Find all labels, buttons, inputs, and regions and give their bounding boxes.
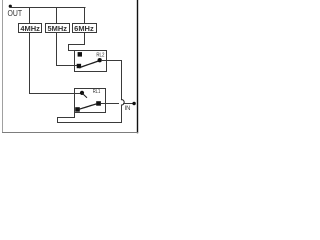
node OUT terminal dot (9, 5, 12, 8)
crystal X1 4MHz (19, 24, 42, 33)
wire hop down to bottom loop (121, 105, 123, 122)
wire crystal X1 to RL1 pole (30, 93, 81, 95)
crystal X3 6MHz (73, 24, 97, 33)
svg-text:4MHz: 4MHz (20, 26, 40, 33)
relay RL1 pole arm stub (83, 94, 87, 98)
relay RL2 lower contact (77, 64, 81, 68)
wire top rail from OUT (11, 7, 86, 9)
relay RL2 switch arm (80, 61, 98, 67)
wire crystal X2 bottom down to RL2 lower contact (57, 33, 78, 66)
relay RL1 box (75, 89, 106, 113)
wire RL2 pole output to right and down (102, 61, 122, 100)
relay RL2 box (75, 51, 107, 72)
wire crystal X3 bottom jog to RL2 upper contact (69, 33, 85, 51)
crystal X2 5MHz (46, 24, 70, 33)
page border bottom (3, 132, 138, 134)
wire IN side after hop (124, 103, 134, 105)
wire drop to crystal X1 (29, 8, 31, 24)
relay RL1 right contact (96, 101, 101, 106)
relay RL2 upper contact (78, 52, 82, 57)
wire drop to crystal X3 (84, 8, 86, 24)
svg-text:5MHz: 5MHz (48, 26, 68, 33)
relay RL1 switch arm (79, 104, 96, 109)
wire bottom loop to RL1 lower contact (58, 113, 122, 123)
node IN terminal dot (132, 102, 135, 105)
svg-text:IN: IN (125, 106, 131, 112)
svg-text:RL1: RL1 (93, 89, 101, 95)
relay RL1 pole (80, 91, 84, 95)
wire drop to crystal X2 (56, 8, 58, 24)
relay RL1 lower contact (75, 107, 80, 112)
svg-text:RL2: RL2 (96, 52, 104, 58)
wire RL1 output to IN (101, 103, 119, 105)
page border left (2, 0, 4, 133)
relay RL2 pole (98, 58, 102, 62)
page border right (137, 0, 139, 133)
wire crystal X1 bottom down (29, 33, 31, 94)
svg-text:OUT: OUT (8, 9, 23, 18)
wire hop over RL1 output (122, 100, 125, 105)
svg-text:6MHz: 6MHz (74, 26, 94, 33)
